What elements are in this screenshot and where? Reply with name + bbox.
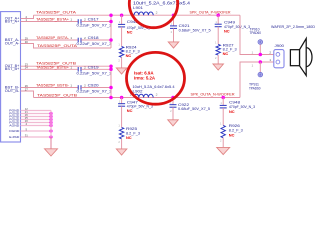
svg-text:NC: NC	[223, 51, 229, 56]
svg-text:1: 1	[251, 63, 253, 67]
junction OUTB / snubber C947	[120, 96, 124, 100]
wire OUTB to C922	[172, 98, 174, 105]
svg-text:J900: J900	[275, 43, 285, 48]
wire OUTB to C948	[222, 98, 224, 106]
wire C947 to R925	[121, 106, 123, 127]
wire E-PAD pin to ground bus	[21, 136, 51, 138]
wire PGND pin to ground bus	[21, 110, 51, 112]
wire OUTA vertical bus	[110, 15, 112, 48]
svg-text:10uH_5.2A_6.6x7.6x5.4: 10uH_5.2A_6.6x7.6x5.4	[133, 84, 176, 89]
junction OUTA bus / C917	[109, 20, 113, 24]
svg-text:0.22uF_50V_X7_3: 0.22uF_50V_X7_3	[77, 71, 112, 75]
svg-text:C919: C919	[88, 65, 99, 69]
power ground symbol (R925)	[116, 149, 127, 155]
wire BST_B- row to bootstrap cap C920	[21, 87, 78, 89]
power ground symbol (C922)	[168, 120, 179, 126]
wire C918 pin2 to OUTA bus	[81, 39, 111, 41]
svg-text:NC: NC	[126, 53, 132, 58]
junction on ground bus	[49, 124, 52, 127]
svg-text:NC: NC	[126, 135, 132, 140]
junction OUTB bus / C920	[109, 86, 113, 90]
svg-text:1: 1	[251, 51, 253, 55]
junction OUTB / snubber C948	[221, 96, 225, 100]
wire BST_A- row to bootstrap cap C918	[21, 39, 78, 41]
junction on ground bus	[49, 129, 52, 132]
svg-text:C920: C920	[88, 83, 99, 87]
junction OUTA / snubber C949	[216, 13, 220, 17]
svg-text:2: 2	[156, 11, 158, 15]
wire R924 to ground	[121, 57, 123, 68]
annotation circle around L901 value	[129, 0, 177, 28]
wire TAS5825P_OUTB bottom run	[34, 97, 241, 99]
svg-text:0.22uF_50V_X7_3: 0.22uF_50V_X7_3	[77, 42, 112, 46]
svg-text:TAS5825P_BSTA-: TAS5825P_BSTA-	[36, 35, 70, 40]
wire C920 pin2 to OUTB bus	[81, 87, 111, 89]
wire PGND pin to ground bus	[21, 122, 51, 124]
svg-text:SPK_OUTA_N-WOOFER: SPK_OUTA_N-WOOFER	[191, 91, 235, 96]
junction on ground bus	[49, 118, 52, 121]
svg-text:2: 2	[156, 93, 158, 97]
svg-text:TAS5825P_BSTB-: TAS5825P_BSTB-	[36, 82, 70, 87]
svg-text:TAS5825P_BSTB+: TAS5825P_BSTB+	[36, 64, 70, 69]
junction on ground bus	[49, 115, 52, 118]
wire R927 to ground	[217, 55, 219, 64]
svg-text:10uH_5.2A_6.6x7.6x5.4: 10uH_5.2A_6.6x7.6x5.4	[133, 0, 190, 6]
svg-text:BST_B+: BST_B+	[5, 67, 20, 71]
junction OUTB bus / OUT_B+	[109, 64, 113, 68]
svg-text:0.68uF_50V_X7_5: 0.68uF_50V_X7_5	[178, 107, 210, 111]
svg-text:OUT_B-: OUT_B-	[5, 89, 20, 93]
power ground symbol (R927)	[213, 64, 224, 70]
wire C922 to ground	[172, 107, 174, 120]
power ground symbol (C921)	[168, 42, 179, 48]
svg-text:TPAD60: TPAD60	[250, 31, 262, 35]
svg-text:TAS5825P_OUTA: TAS5825P_OUTA	[37, 43, 77, 48]
svg-text:0.22uF_50V_X7_3: 0.22uF_50V_X7_3	[77, 90, 112, 94]
wire DGND pin to ground bus	[21, 130, 51, 132]
svg-text:WAFER_2P_2.5mm_180D: WAFER_2P_2.5mm_180D	[271, 25, 315, 29]
wire OUT_B+ pin to OUTB bus	[21, 65, 111, 67]
svg-text:C918: C918	[88, 36, 99, 40]
wire C919 pin2 to OUTB bus	[81, 68, 111, 70]
junction TP910 / P wire	[259, 53, 263, 57]
wire PGND pin to ground bus	[21, 119, 51, 121]
wire C949 to R927	[217, 27, 219, 45]
wire C917 pin2 to OUTA bus	[81, 21, 111, 23]
power ground symbol PGND (IC pins)	[50, 137, 52, 149]
wire PGND pin to ground bus	[21, 116, 51, 118]
wire AGND pin to ground bus	[21, 125, 51, 127]
wire R926 to ground	[222, 138, 224, 148]
junction on ground bus	[49, 135, 52, 138]
wire OUTA to C921	[173, 15, 175, 26]
junction OUTB bus / C919	[109, 68, 113, 72]
wire BST_A+ row to bootstrap cap C917	[21, 21, 78, 23]
wire OUT_B- pin stub down to OUTB net	[21, 91, 34, 98]
svg-text:L901: L901	[133, 6, 143, 10]
wire C946 to R924	[121, 27, 123, 47]
svg-text:NC: NC	[127, 29, 133, 34]
svg-text:Irms: 5.2A: Irms: 5.2A	[134, 75, 155, 80]
junction OUTA bus / C918	[109, 38, 113, 42]
wire OUT_A- pin stub down to OUTA net	[21, 44, 111, 49]
wire TAS5825P_OUTA top run	[34, 14, 241, 16]
svg-text:NC: NC	[224, 28, 230, 33]
svg-text:C948: C948	[229, 101, 240, 105]
svg-text:C949: C949	[224, 20, 235, 24]
svg-text:TAS5825P_BSTA+: TAS5825P_BSTA+	[36, 16, 70, 21]
wire C921 to ground	[173, 28, 175, 42]
junction OUTA bus / top run	[109, 13, 113, 17]
svg-text:TAS5825P_OUTB: TAS5825P_OUTB	[37, 92, 77, 97]
wire OUTB to C947	[121, 98, 123, 104]
svg-text:AGND: AGND	[9, 124, 20, 128]
svg-text:0.68uF_50V_X7_5: 0.68uF_50V_X7_5	[179, 28, 211, 32]
wire SPK_OUTA_N to connector pin 1	[240, 62, 274, 98]
svg-text:NC: NC	[127, 108, 133, 113]
svg-text:R926: R926	[229, 124, 240, 128]
svg-text:TAS5825P_OUTA: TAS5825P_OUTA	[36, 9, 76, 14]
wire OUTA to C946	[121, 15, 123, 24]
wire BST_B+ row to bootstrap cap C919	[21, 68, 78, 70]
wire OUTB vertical bus	[110, 66, 112, 97]
annotation circle around L902 / Isat note	[127, 52, 185, 104]
junction on ground bus	[49, 121, 52, 124]
junction on ground bus	[49, 112, 52, 115]
svg-text:TPAD60: TPAD60	[249, 87, 261, 91]
svg-text:DGND: DGND	[9, 129, 20, 133]
wire SPK_OUTA_P to connector pin 2	[240, 15, 274, 54]
power ground symbol (R924)	[116, 68, 127, 74]
amplifier IC block (TAS5825P, partial symbol)	[1, 12, 21, 142]
junction TP911 / N wire	[259, 60, 263, 64]
wire C948 to R926	[222, 108, 224, 126]
svg-text:BST_A+: BST_A+	[5, 20, 20, 24]
junction OUTA / snubber C946	[120, 13, 124, 17]
speaker (woofer) symbol	[290, 39, 312, 76]
wire ground bus vertical	[50, 111, 52, 149]
svg-text:C917: C917	[88, 17, 99, 21]
svg-text:OUT_A-: OUT_A-	[5, 42, 20, 46]
svg-text:SPK_OUTA_P-WOOFER: SPK_OUTA_P-WOOFER	[190, 10, 231, 15]
wire OUTA to C949	[217, 15, 219, 24]
junction OUTB bus / bottom run	[109, 96, 113, 100]
junction OUTB / C922	[171, 96, 175, 100]
svg-text:L902: L902	[133, 88, 144, 93]
wire OUT_A+ pin stub up to OUTA net	[21, 15, 34, 18]
svg-text:E-PAD: E-PAD	[9, 135, 20, 139]
wire PGND pin to ground bus	[21, 113, 51, 115]
junction OUTA / C921	[172, 13, 176, 17]
svg-text:NC: NC	[229, 109, 235, 114]
svg-text:0.22uF_50V_X7_3: 0.22uF_50V_X7_3	[77, 24, 112, 28]
wire R925 to ground	[121, 139, 123, 149]
svg-text:NC: NC	[229, 133, 235, 138]
power ground symbol (R926)	[217, 147, 230, 154]
